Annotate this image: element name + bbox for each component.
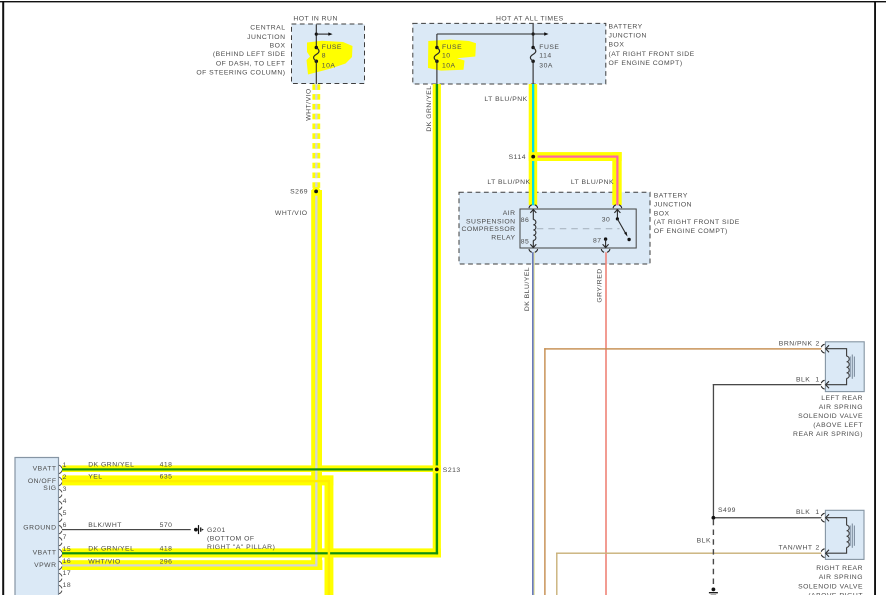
svg-text:BRN/PNK: BRN/PNK (779, 341, 813, 348)
relay pin 87 arrow (603, 239, 609, 247)
svg-text:AIR SPRING: AIR SPRING (819, 404, 863, 411)
ground G201 symbol (194, 525, 204, 534)
left valve pin2 cup (821, 344, 824, 353)
svg-text:LT BLU/PNK: LT BLU/PNK (571, 179, 614, 186)
highlight band: pin15 horizontal (62, 548, 441, 557)
svg-text:10A: 10A (442, 62, 456, 69)
svg-text:RELAY: RELAY (491, 235, 515, 242)
svg-text:S213: S213 (443, 467, 461, 474)
svg-text:BATTERY: BATTERY (609, 24, 643, 31)
battery junction box top (dashed, fill) (413, 23, 606, 84)
svg-text:VBATT: VBATT (33, 466, 57, 473)
node S114 (529, 152, 538, 161)
svg-text:17: 17 (63, 570, 72, 577)
svg-text:OF STEERING COLUMN): OF STEERING COLUMN) (196, 70, 285, 77)
fuse F10 output wire (436, 61, 438, 84)
fuse F8 element (314, 46, 319, 63)
wire: TAN/WHT horizontal to right valve pin2 (556, 553, 821, 554)
relay pin 30 arrow (614, 210, 620, 219)
right valve core bars (850, 524, 854, 548)
svg-text:BATTERY: BATTERY (654, 193, 688, 200)
svg-text:SOLENOID VALVE: SOLENOID VALVE (798, 413, 863, 420)
svg-text:2: 2 (816, 341, 820, 348)
wire: DK GRN/YEL pin1 horizontal (62, 468, 438, 470)
svg-text:REAR AIR SPRING): REAR AIR SPRING) (793, 431, 863, 438)
svg-text:AIR SPRING: AIR SPRING (819, 574, 863, 581)
svg-text:BOX: BOX (609, 42, 625, 49)
svg-text:2: 2 (816, 545, 820, 552)
svg-text:(BEHIND LEFT SIDE: (BEHIND LEFT SIDE (213, 51, 286, 58)
relay pin 85 connector cup (529, 249, 538, 252)
right valve pin1 arrow (826, 514, 829, 521)
svg-text:RIGHT "A" PILLAR): RIGHT "A" PILLAR) (207, 544, 275, 551)
svg-text:LT BLU/PNK: LT BLU/PNK (484, 96, 527, 103)
svg-text:HOT AT ALL TIMES: HOT AT ALL TIMES (496, 15, 564, 22)
svg-text:8: 8 (322, 53, 326, 60)
svg-text:GROUND: GROUND (23, 525, 56, 532)
node S269 (312, 187, 321, 196)
BJB feed arrow (533, 32, 548, 35)
wire: BLK/WHT pin6 horizontal (62, 529, 191, 530)
label TAN/WHT 2 (779, 545, 820, 552)
svg-text:635: 635 (160, 474, 173, 481)
svg-text:3: 3 (63, 486, 67, 493)
wire: YEL pin2 horizontal (62, 480, 329, 482)
svg-text:CENTRAL: CENTRAL (250, 25, 285, 32)
highlight band: YEL pin2 horizontal (62, 475, 333, 485)
svg-text:RIGHT REAR: RIGHT REAR (816, 565, 863, 572)
svg-text:JUNCTION: JUNCTION (247, 34, 285, 41)
svg-text:SIG: SIG (43, 485, 56, 492)
svg-text:JUNCTION: JUNCTION (654, 202, 692, 209)
svg-text:BOX: BOX (654, 211, 670, 218)
relay pin 86 connector cup (529, 205, 538, 208)
svg-text:WHT/VIO: WHT/VIO (275, 210, 308, 217)
wire: TAN/WHT vertical (556, 553, 557, 595)
wire: DK BLU/YEL below relay pin85 (532, 252, 534, 595)
label G201 (207, 527, 275, 551)
svg-text:(AT RIGHT FRONT SIDE: (AT RIGHT FRONT SIDE (654, 219, 740, 226)
wire: DK GRN/YEL pin15 horizontal (62, 552, 438, 554)
svg-text:BOX: BOX (270, 43, 286, 50)
BJB feed wire (532, 24, 534, 47)
left valve pin2 arrow (826, 345, 829, 352)
svg-text:COMPRESSOR: COMPRESSOR (461, 226, 515, 233)
svg-text:BLK/WHT: BLK/WHT (88, 522, 122, 529)
svg-text:S499: S499 (718, 507, 736, 514)
svg-text:ON/OFF: ON/OFF (28, 478, 57, 485)
svg-text:15: 15 (63, 546, 72, 553)
ground G-S499 symbol (709, 588, 718, 595)
svg-text:FUSE: FUSE (442, 44, 462, 51)
wire: YEL vertical (328, 480, 330, 595)
svg-text:30A: 30A (539, 62, 553, 69)
relay solid box U1 (520, 209, 636, 248)
highlight band: LT BLU/PNK pink horizontal (529, 152, 622, 161)
svg-text:85: 85 (521, 239, 530, 246)
highlight band: WHT/VIO dashed segment fuse8 to S269 (312, 84, 320, 188)
highlight band: WHT/VIO solid S269 to pin16 (311, 190, 322, 570)
svg-text:LT BLU/PNK: LT BLU/PNK (487, 179, 530, 186)
wire: BLK dashed below S499 (712, 520, 714, 588)
svg-text:FUSE: FUSE (539, 44, 559, 51)
label fuse F10 (442, 44, 462, 69)
wire: PNK horizontal S114 to x617 (533, 156, 618, 158)
svg-text:LEFT REAR: LEFT REAR (821, 395, 863, 402)
svg-text:10: 10 (442, 53, 451, 60)
connector left labels (23, 466, 56, 569)
svg-text:WHT/VIO: WHT/VIO (306, 88, 313, 121)
svg-text:OF ENGINE COMPT): OF ENGINE COMPT) (609, 60, 683, 67)
relay pin 87 contact dot (604, 237, 607, 240)
svg-text:1: 1 (815, 509, 819, 516)
svg-text:DK GRN/YEL: DK GRN/YEL (426, 85, 433, 131)
svg-text:BLK: BLK (796, 509, 810, 516)
svg-text:WHT/VIO: WHT/VIO (88, 558, 121, 565)
relay pin 87 connector cup (601, 249, 610, 252)
fuse F8 output wire (315, 61, 317, 84)
svg-text:OF ENGINE COMPT): OF ENGINE COMPT) (654, 228, 728, 235)
wire: BRN/PNK vertical (544, 348, 545, 595)
svg-text:4: 4 (63, 498, 67, 505)
svg-text:418: 418 (160, 546, 173, 553)
label left valve name (793, 395, 863, 438)
wire: BLK left valve pin1 horizontal (713, 384, 822, 385)
svg-text:296: 296 (160, 558, 173, 565)
highlight band: WHT/VIO pin16 horizontal (62, 560, 322, 570)
label relay name (461, 210, 515, 242)
fuse F8 feed node dot (315, 33, 318, 36)
label central junction box text (196, 25, 285, 77)
svg-text:BLK: BLK (697, 537, 711, 544)
fuse F114 output wire (532, 61, 534, 84)
highlight band: DK GRN/YEL vertical fuse10 to pin15 (433, 84, 441, 558)
wire: DK GRN/YEL vertical (436, 84, 438, 554)
svg-text:YEL: YEL (88, 474, 102, 481)
label BRN/PNK 2 (779, 341, 820, 348)
svg-text:JUNCTION: JUNCTION (609, 33, 647, 40)
fuse F8 feed arrow (316, 32, 332, 35)
wire: WHT/VIO gray vertical below S269 (315, 191, 317, 567)
svg-text:114: 114 (539, 53, 551, 60)
svg-text:VPWR: VPWR (34, 562, 56, 569)
right rear valve box (825, 510, 864, 559)
left valve core bars (850, 355, 854, 379)
svg-text:HOT IN RUN: HOT IN RUN (293, 15, 338, 22)
svg-text:S269: S269 (290, 189, 308, 196)
fuse F114 element (530, 46, 535, 63)
svg-text:1: 1 (815, 377, 819, 384)
label relay BJB text (654, 193, 740, 235)
svg-text:2: 2 (63, 474, 67, 481)
relay coil (533, 220, 536, 241)
wire: BRN/PNK horizontal to left valve pin2 (544, 348, 821, 349)
svg-text:SUSPENSION: SUSPENSION (466, 218, 516, 225)
svg-text:GRY/RED: GRY/RED (597, 268, 604, 302)
wire: BLK vertical to S499 (713, 384, 714, 518)
svg-text:418: 418 (160, 462, 173, 469)
label fuse F114 (539, 44, 559, 69)
connector C block (15, 458, 59, 595)
svg-text:SOLENOID VALVE: SOLENOID VALVE (798, 583, 863, 590)
relay switch contact dot 87a (627, 238, 630, 241)
node S213 (433, 465, 441, 473)
svg-text:570: 570 (160, 522, 173, 529)
relay pin 86 arrow (530, 210, 536, 220)
svg-text:AIR: AIR (503, 210, 516, 217)
node S499 (712, 516, 716, 520)
svg-text:10A: 10A (322, 62, 336, 69)
left valve pin1 cup (821, 380, 824, 389)
highlight band: pin1 horizontal (62, 465, 441, 472)
relay switch blade (617, 219, 627, 237)
left rear valve box (825, 342, 864, 392)
svg-text:DK BLU/YEL: DK BLU/YEL (524, 267, 531, 311)
right valve pin2 arrow (826, 550, 829, 557)
wire row labels (88, 462, 172, 566)
right valve pin2 cup (821, 549, 824, 558)
BJB feed node dot (532, 32, 535, 35)
label fuse F8 (322, 44, 342, 69)
highlight band: LT BLU/PNK cyan vertical (529, 84, 538, 205)
BJB branch wire to fuse 10 (437, 34, 533, 47)
svg-text:18: 18 (63, 582, 72, 589)
svg-text:TAN/WHT: TAN/WHT (779, 545, 813, 552)
highlight band: YEL vertical to bottom (325, 475, 334, 595)
svg-text:OF DASH, TO LEFT: OF DASH, TO LEFT (216, 60, 286, 67)
svg-text:DK GRN/YEL: DK GRN/YEL (88, 462, 134, 469)
svg-text:(AT RIGHT FRONT SIDE: (AT RIGHT FRONT SIDE (609, 51, 695, 58)
connector pin arcs (59, 465, 62, 594)
highlighter blob over fuse 10 (428, 40, 476, 71)
svg-text:G201: G201 (207, 527, 226, 534)
connector pin numbers (63, 462, 72, 589)
relay pin 85 arrow (530, 240, 536, 247)
svg-text:30: 30 (602, 216, 611, 223)
fuse F8 feed wire (315, 25, 317, 48)
wire: BLK S499 to right valve pin1 horizontal (713, 517, 822, 518)
svg-text:1: 1 (63, 462, 67, 469)
relay pin 30 connector cup (613, 205, 622, 208)
left valve internal wiring and coil (826, 349, 850, 385)
wire: LT BLU cyan vertical fuse114 to relay pin86 (532, 84, 534, 205)
svg-text:VBATT: VBATT (33, 550, 57, 557)
relay switch common dot (616, 217, 619, 220)
svg-text:16: 16 (63, 558, 72, 565)
svg-text:(BOTTOM OF: (BOTTOM OF (207, 535, 255, 542)
battery junction box relay (dashed, fill) (459, 192, 650, 264)
label BLK 1 left valve (796, 377, 820, 384)
svg-text:BLK: BLK (796, 377, 810, 384)
svg-text:87: 87 (593, 237, 602, 244)
fuse F10 element (434, 46, 439, 63)
highlight band: LT BLU/PNK pink vertical (612, 152, 621, 205)
right valve pin1 cup (821, 513, 824, 522)
svg-text:86: 86 (521, 217, 530, 224)
svg-text:5: 5 (63, 510, 67, 517)
svg-text:DK GRN/YEL: DK GRN/YEL (88, 546, 134, 553)
right valve internal wiring and coil (826, 518, 850, 554)
svg-text:6: 6 (63, 522, 67, 529)
svg-text:FUSE: FUSE (322, 44, 342, 51)
wire: GRY/RED below relay pin87 (605, 252, 607, 595)
wire: PNK vertical to relay pin30 (616, 156, 618, 206)
highlighter blob over fuse 8 (307, 41, 353, 75)
svg-text:S114: S114 (509, 154, 526, 161)
label right valve name (798, 565, 863, 595)
svg-text:7: 7 (63, 534, 67, 541)
wire: WHT/VIO gray pin16 horizontal (62, 564, 318, 566)
label BLK 1 right valve (796, 509, 820, 516)
left valve pin1 arrow (826, 381, 829, 388)
central junction box (dashed, fill) (292, 24, 365, 84)
relay mech dashed link (537, 228, 620, 230)
svg-text:(ABOVE LEFT: (ABOVE LEFT (813, 422, 863, 429)
label battery junction box text (609, 24, 695, 67)
